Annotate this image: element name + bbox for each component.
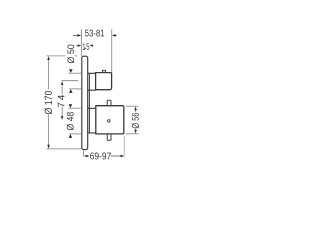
top handle button	[103, 70, 106, 72]
dimension 1.5	[76, 43, 93, 49]
extension line plate rear bottom	[83, 150, 85, 156]
escutcheon plate	[82, 56, 88, 149]
top handle	[96, 73, 112, 90]
bottom handle bottom notch	[107, 134, 111, 140]
extension line handle front top	[111, 29, 113, 72]
bottom collar	[88, 108, 96, 133]
sleeve tube	[88, 73, 90, 133]
dimension 69-97	[84, 153, 125, 160]
dimension Ø48 bottom sleeve	[67, 104, 82, 138]
extension line wall plane	[80, 29, 82, 56]
extension line handle front bottom	[123, 136, 125, 157]
dimension 74 axis distance	[58, 81, 79, 120]
top collar	[88, 73, 96, 90]
dimension Ø56 bottom handle	[126, 106, 139, 134]
dimension Ø170 plate	[45, 56, 81, 149]
bottom handle top notch	[107, 100, 111, 105]
bottom handle	[96, 106, 124, 134]
dimension Ø30 top unit	[67, 45, 81, 93]
bottom handle center mark	[108, 120, 111, 123]
dimension 53-81	[73, 30, 117, 37]
